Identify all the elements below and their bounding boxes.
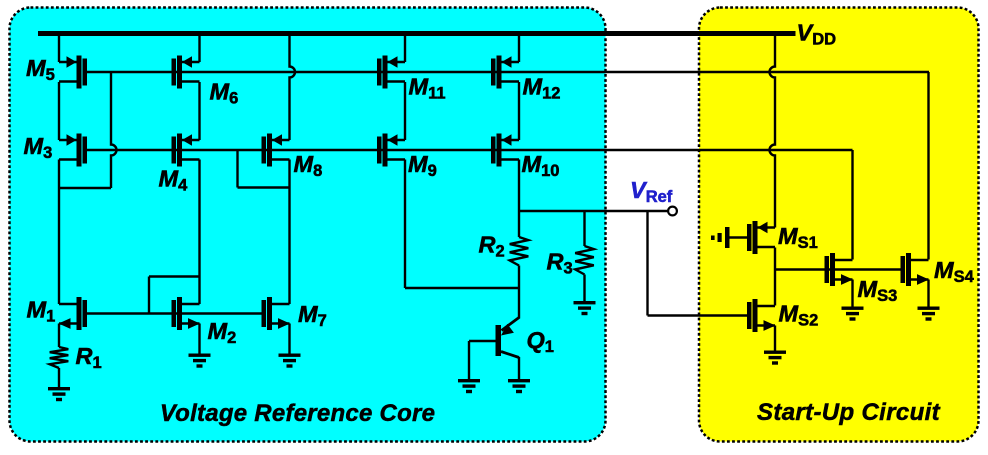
- svg-text:Start-Up Circuit: Start-Up Circuit: [757, 399, 941, 426]
- svg-text:Voltage Reference Core: Voltage Reference Core: [160, 400, 435, 427]
- svg-text:VRef: VRef: [630, 177, 673, 206]
